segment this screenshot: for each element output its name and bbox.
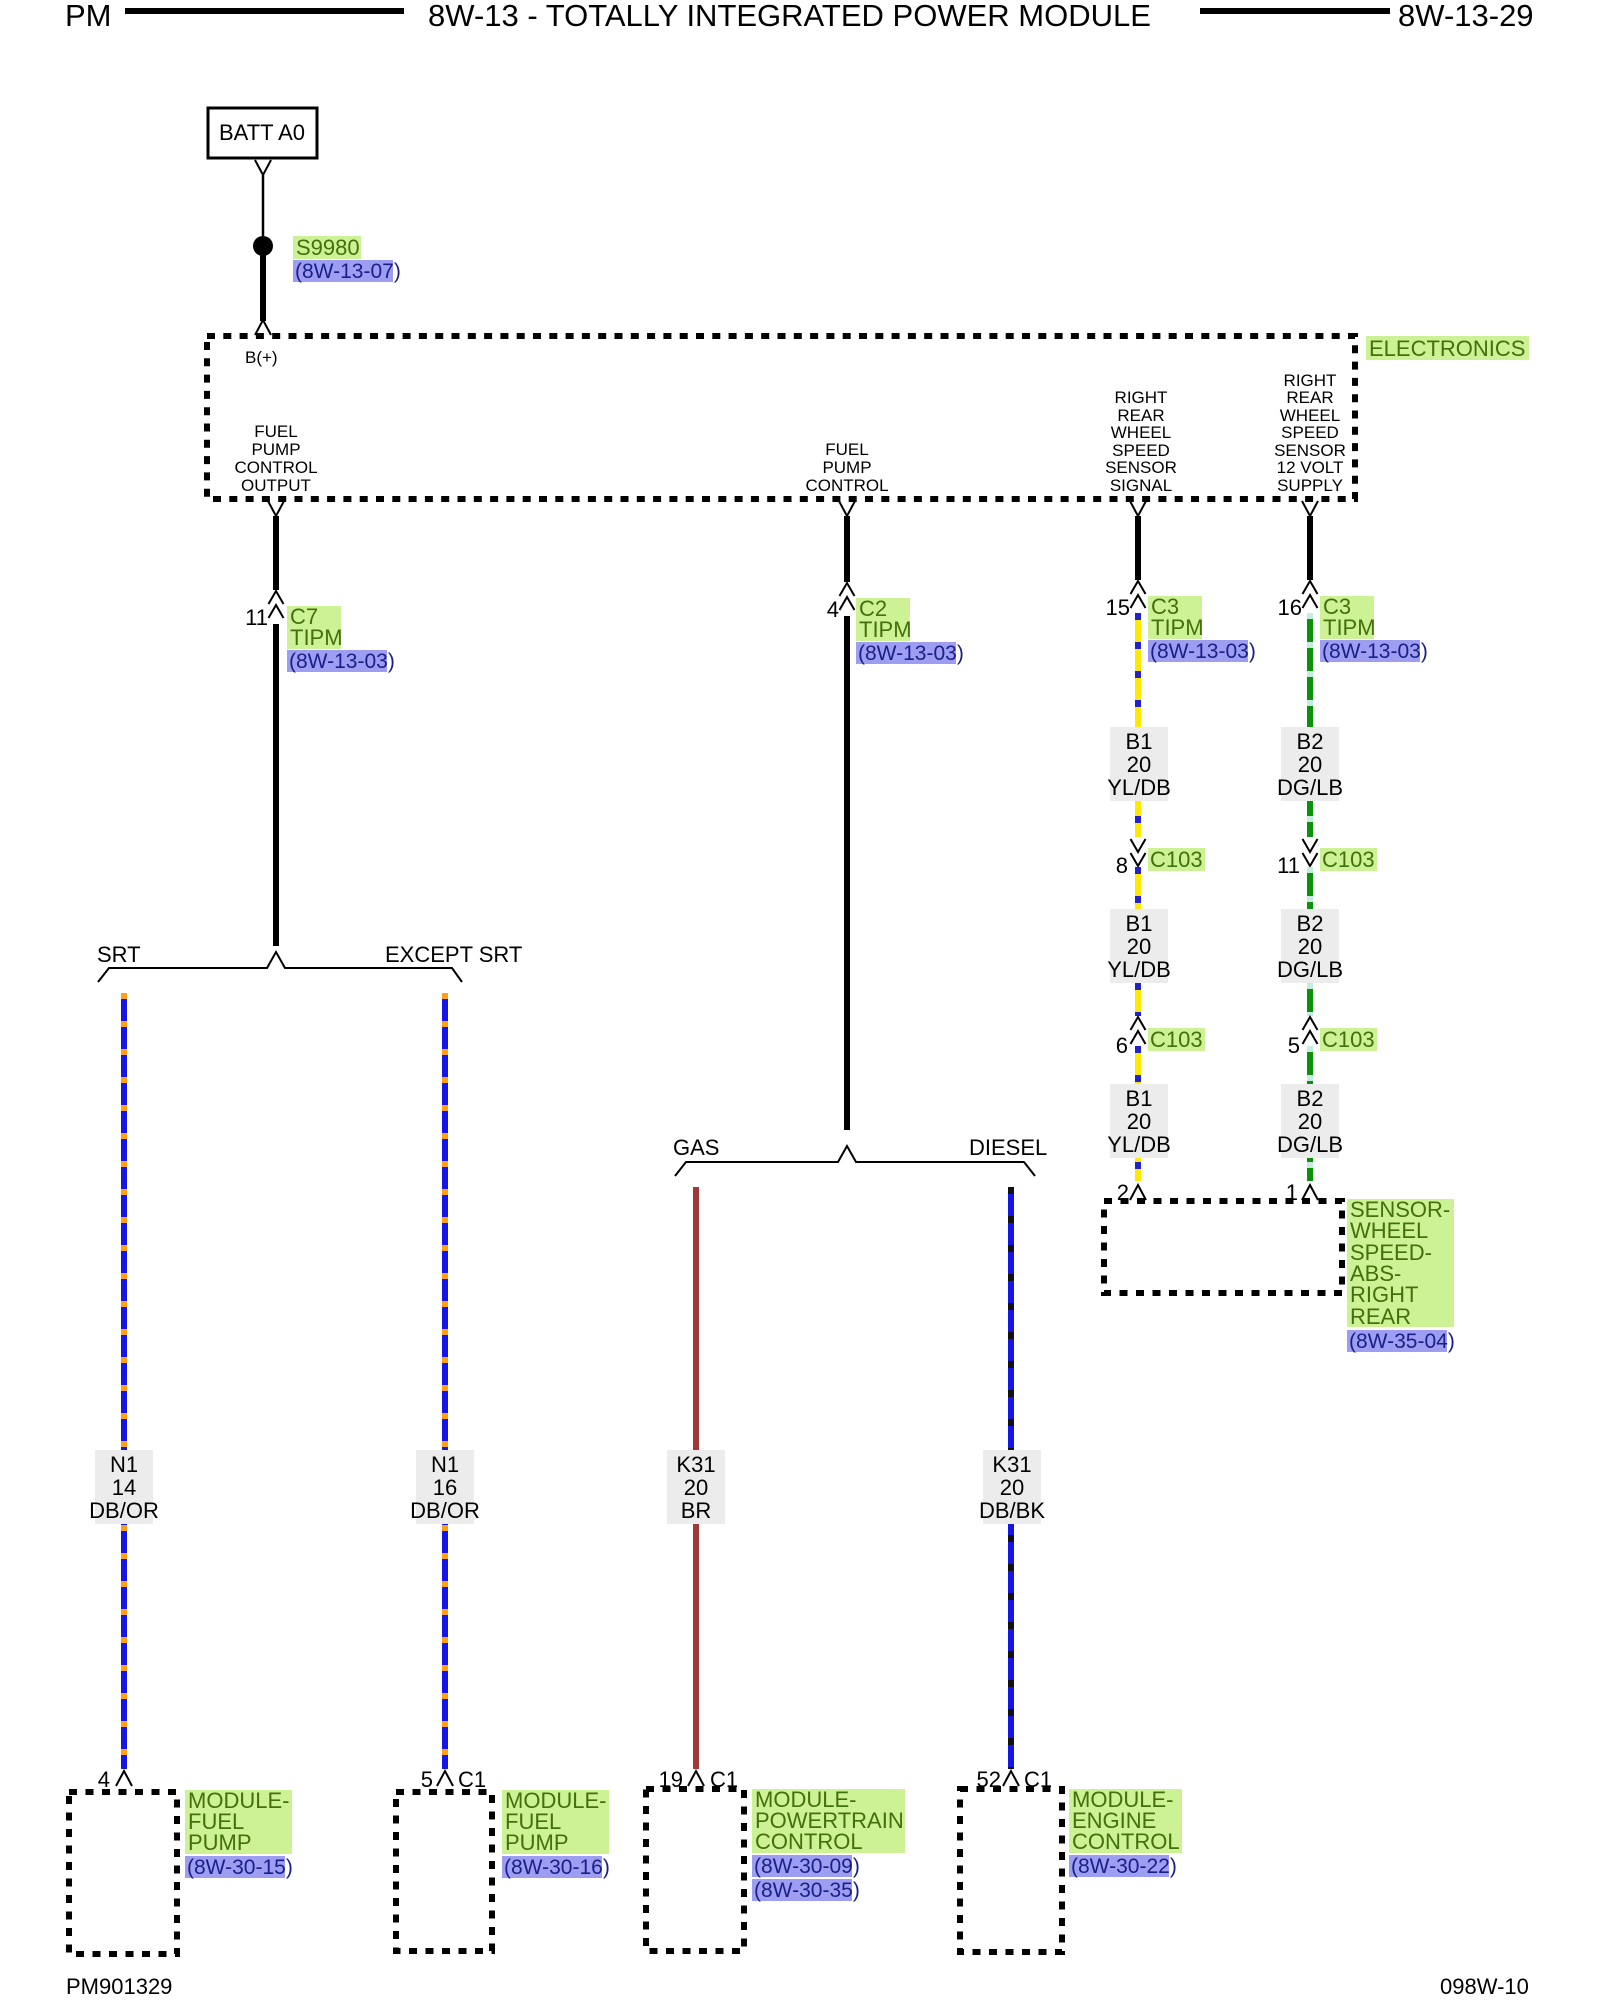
- svg-text:11: 11: [1277, 853, 1300, 878]
- label (8W-30-15): [185, 1856, 285, 1878]
- in-line connector pin 11 of C103: [1303, 839, 1318, 866]
- wire label B2 20 DG/LB: [1281, 727, 1339, 801]
- in-line connector pin 16 of C3 TIPM: [1303, 581, 1318, 608]
- label SENSOR-WHEEL SPEED-ABS-RIGHT REAR: [1347, 1199, 1454, 1327]
- svg-text:TIPM: TIPM: [290, 625, 343, 650]
- module fuel pump (SRT) dashed box: [69, 1792, 177, 1954]
- label (8W-30-22): [1069, 1855, 1169, 1877]
- label (8W-13-07): [293, 260, 393, 282]
- svg-text:(8W-30-09): (8W-30-09): [754, 1855, 860, 1878]
- wire label B1 20 YL/DB: [1110, 909, 1168, 983]
- wire sensor supply inside tipm: [1307, 516, 1313, 580]
- brace SRT / EXCEPT SRT: [98, 952, 462, 982]
- svg-text:(8W-13-03): (8W-13-03): [1150, 640, 1256, 663]
- svg-text:REAR: REAR: [1286, 388, 1333, 407]
- svg-text:C103: C103: [1322, 1027, 1375, 1052]
- svg-text:YL/DB: YL/DB: [1107, 775, 1171, 800]
- svg-text:TIPM: TIPM: [1151, 615, 1204, 640]
- wire sensor signal inside tipm: [1135, 516, 1141, 580]
- svg-text:TIPM: TIPM: [859, 617, 912, 642]
- in-line connector pin 4 of C2 TIPM: [840, 583, 855, 610]
- svg-text:(8W-30-15): (8W-30-15): [187, 1856, 293, 1879]
- wire fuel pump control output lower: [273, 624, 279, 946]
- svg-text:C103: C103: [1322, 847, 1375, 872]
- svg-text:RIGHT: RIGHT: [1115, 388, 1168, 407]
- module fuel pump dashed box: [396, 1792, 492, 1951]
- battery feed box BATT A0: [208, 108, 317, 158]
- label (8W-30-35): [752, 1879, 852, 1901]
- wire B2 20 DG/LB segment 1: [1307, 613, 1313, 837]
- svg-text:K31: K31: [992, 1452, 1031, 1477]
- svg-text:6: 6: [1116, 1033, 1128, 1058]
- in-line connector pin 6 of C103: [1131, 1017, 1146, 1044]
- wire from BATT A0 to splice: [262, 175, 265, 238]
- wire from splice to TIPM B(+): [260, 254, 266, 321]
- svg-text:16: 16: [433, 1475, 457, 1500]
- svg-text:S9980: S9980: [296, 235, 360, 260]
- svg-text:B2: B2: [1297, 1086, 1324, 1111]
- svg-text:DG/LB: DG/LB: [1277, 775, 1343, 800]
- pin label FUEL PUMP CONTROL OUTPUT: [234, 422, 317, 495]
- label C2 TIPM: [856, 598, 910, 641]
- svg-text:OUTPUT: OUTPUT: [241, 476, 311, 495]
- svg-text:20: 20: [1298, 934, 1322, 959]
- in-line connector pin 8 of C103: [1131, 839, 1146, 866]
- label MODULE-ENGINE CONTROL: [1069, 1789, 1182, 1853]
- pin label RIGHT REAR WHEEL SPEED SENSOR 12 VOLT SUPPLY: [1274, 371, 1346, 495]
- in-line connector pin 15 of C3 TIPM: [1131, 581, 1146, 608]
- svg-text:REAR: REAR: [1350, 1304, 1411, 1329]
- label (8W-13-03): [1148, 640, 1248, 662]
- header rule left: [125, 8, 404, 14]
- svg-text:BATT A0: BATT A0: [219, 120, 305, 145]
- wire B1 20 YL/DB segment 2: [1135, 867, 1141, 1016]
- svg-text:(8W-13-03): (8W-13-03): [1322, 640, 1428, 663]
- svg-text:SUPPLY: SUPPLY: [1277, 476, 1343, 495]
- svg-text:PUMP: PUMP: [188, 1830, 252, 1855]
- pin label RIGHT REAR WHEEL SPEED SENSOR SIGNAL: [1105, 388, 1177, 495]
- svg-text:FUEL: FUEL: [825, 440, 868, 459]
- svg-text:PUMP: PUMP: [505, 1830, 569, 1855]
- in-line connector pin 11 of C7 TIPM: [269, 591, 284, 618]
- male pin caret into electronics module: [255, 320, 271, 335]
- wire label B1 20 YL/DB: [1110, 727, 1168, 801]
- label (8W-30-09): [752, 1855, 852, 1877]
- label (8W-13-03): [287, 650, 387, 672]
- label (8W-13-03): [856, 642, 956, 664]
- wire K31 20 DB/BK (DIESEL): [1008, 1187, 1014, 1769]
- svg-text:B1: B1: [1126, 729, 1153, 754]
- wire label K31 20 DB/BK: [983, 1450, 1041, 1524]
- svg-text:(8W-30-22): (8W-30-22): [1071, 1855, 1177, 1878]
- svg-text:20: 20: [1127, 1109, 1151, 1134]
- svg-text:C103: C103: [1150, 847, 1203, 872]
- svg-text:TIPM: TIPM: [1323, 615, 1376, 640]
- electronics module dashed box: [207, 336, 1355, 499]
- pin label FUEL PUMP CONTROL: [805, 440, 888, 495]
- wire K31 20 BR (GAS): [693, 1187, 699, 1769]
- wire label B1 20 YL/DB: [1110, 1084, 1168, 1158]
- wire B1 20 YL/DB segment 1: [1135, 613, 1141, 837]
- module engine control dashed box: [960, 1789, 1062, 1952]
- svg-text:CONTROL: CONTROL: [805, 476, 888, 495]
- svg-text:CONTROL: CONTROL: [755, 1829, 863, 1854]
- svg-text:K31: K31: [676, 1452, 715, 1477]
- label C7 TIPM: [287, 606, 341, 649]
- wire N1 16 DB/OR (EXCEPT SRT): [442, 993, 448, 1769]
- label C3 TIPM: [1148, 596, 1202, 639]
- svg-text:DB/OR: DB/OR: [89, 1498, 159, 1523]
- label C3 TIPM: [1320, 596, 1374, 639]
- svg-text:20: 20: [1298, 1109, 1322, 1134]
- label S9980: [293, 236, 361, 259]
- svg-text:DG/LB: DG/LB: [1277, 1132, 1343, 1157]
- svg-text:YL/DB: YL/DB: [1107, 957, 1171, 982]
- svg-text:SENSOR: SENSOR: [1105, 458, 1177, 477]
- svg-text:5: 5: [421, 1767, 433, 1792]
- wire label B2 20 DG/LB: [1281, 1084, 1339, 1158]
- svg-text:PM901329: PM901329: [66, 1974, 172, 1999]
- label MODULE-POWERTRAIN CONTROL: [752, 1789, 905, 1853]
- svg-text:(8W-30-16): (8W-30-16): [504, 1856, 610, 1879]
- svg-text:DB/BK: DB/BK: [979, 1498, 1045, 1523]
- svg-text:(8W-13-07): (8W-13-07): [295, 260, 401, 283]
- in-line connector pin 5 of C103: [1303, 1017, 1318, 1044]
- sensor wheel speed abs right rear dashed box: [1104, 1201, 1342, 1293]
- svg-text:16: 16: [1278, 595, 1302, 620]
- svg-text:N1: N1: [431, 1452, 459, 1477]
- svg-text:11: 11: [245, 605, 268, 630]
- svg-text:WHEEL: WHEEL: [1111, 423, 1171, 442]
- svg-text:DB/OR: DB/OR: [410, 1498, 480, 1523]
- wire N1 14 DB/OR (SRT): [121, 993, 127, 1769]
- svg-text:PUMP: PUMP: [822, 458, 871, 477]
- svg-text:4: 4: [827, 597, 839, 622]
- svg-text:8: 8: [1116, 853, 1128, 878]
- svg-text:CONTROL: CONTROL: [1072, 1829, 1180, 1854]
- svg-text:B(+): B(+): [245, 348, 278, 367]
- svg-text:C1: C1: [458, 1767, 486, 1792]
- label (8W-13-03): [1320, 640, 1420, 662]
- svg-text:BR: BR: [681, 1498, 712, 1523]
- svg-text:15: 15: [1106, 595, 1130, 620]
- svg-text:FUEL: FUEL: [254, 422, 297, 441]
- wire fuel pump control output upper: [273, 516, 279, 590]
- svg-text:5: 5: [1288, 1033, 1300, 1058]
- svg-text:SRT: SRT: [97, 942, 141, 967]
- svg-text:DG/LB: DG/LB: [1277, 957, 1343, 982]
- svg-text:C103: C103: [1150, 1027, 1203, 1052]
- header rule right: [1200, 8, 1390, 14]
- svg-text:B1: B1: [1126, 911, 1153, 936]
- svg-text:EXCEPT SRT: EXCEPT SRT: [385, 942, 522, 967]
- svg-text:(8W-13-03): (8W-13-03): [289, 650, 395, 673]
- svg-text:8W-13-29: 8W-13-29: [1398, 0, 1534, 33]
- svg-text:ELECTRONICS: ELECTRONICS: [1369, 336, 1525, 361]
- wire label N1 14 DB/OR: [95, 1450, 153, 1524]
- label (8W-30-16): [502, 1856, 602, 1878]
- svg-text:PM: PM: [65, 0, 112, 33]
- svg-text:4: 4: [98, 1767, 110, 1792]
- label MODULE-FUEL PUMP: [185, 1790, 292, 1854]
- svg-text:DIESEL: DIESEL: [969, 1135, 1047, 1160]
- label ELECTRONICS: [1366, 336, 1529, 360]
- svg-text:SIGNAL: SIGNAL: [1110, 476, 1172, 495]
- svg-text:(8W-30-35): (8W-30-35): [754, 1879, 860, 1902]
- wire B1 20 YL/DB segment 3: [1135, 1046, 1141, 1181]
- wire label K31 20 BR: [667, 1450, 725, 1524]
- svg-text:12 VOLT: 12 VOLT: [1277, 458, 1344, 477]
- label (8W-35-04): [1347, 1330, 1447, 1352]
- svg-text:(8W-35-04): (8W-35-04): [1349, 1330, 1455, 1353]
- splice S9980: [253, 236, 273, 256]
- svg-text:CONTROL: CONTROL: [234, 458, 317, 477]
- module powertrain control dashed box: [646, 1789, 744, 1951]
- connector V at right rear wheel speed sensor 12 volt supply: [1302, 501, 1318, 516]
- svg-text:8W-13 - TOTALLY INTEGRATED POW: 8W-13 - TOTALLY INTEGRATED POWER MODULE: [428, 0, 1151, 33]
- svg-text:GAS: GAS: [673, 1135, 719, 1160]
- svg-text:B1: B1: [1126, 1086, 1153, 1111]
- connector at BATT A0 output: [255, 160, 271, 175]
- svg-text:(8W-13-03): (8W-13-03): [858, 642, 964, 665]
- svg-text:20: 20: [1127, 934, 1151, 959]
- svg-text:20: 20: [1298, 752, 1322, 777]
- svg-text:B2: B2: [1297, 911, 1324, 936]
- svg-text:20: 20: [1000, 1475, 1024, 1500]
- wire B2 20 DG/LB segment 2: [1307, 867, 1313, 1016]
- svg-text:SPEED: SPEED: [1281, 423, 1339, 442]
- wire fuel pump control lower: [844, 616, 850, 1130]
- svg-text:YL/DB: YL/DB: [1107, 1132, 1171, 1157]
- svg-text:20: 20: [1127, 752, 1151, 777]
- wire B2 20 DG/LB segment 3: [1307, 1046, 1313, 1181]
- label MODULE-FUEL PUMP: [502, 1790, 609, 1854]
- connector V at right rear wheel speed sensor signal: [1130, 501, 1146, 516]
- wire label N1 16 DB/OR: [416, 1450, 474, 1524]
- svg-text:20: 20: [684, 1475, 708, 1500]
- svg-text:B2: B2: [1297, 729, 1324, 754]
- brace GAS / DIESEL: [675, 1146, 1035, 1176]
- svg-text:14: 14: [112, 1475, 136, 1500]
- wire label B2 20 DG/LB: [1281, 909, 1339, 983]
- svg-text:N1: N1: [110, 1452, 138, 1477]
- svg-text:PUMP: PUMP: [251, 440, 300, 459]
- connector V at fuel pump control: [839, 501, 855, 516]
- svg-text:098W-10: 098W-10: [1440, 1974, 1529, 1999]
- wire fuel pump control upper: [844, 516, 850, 582]
- connector V at fuel pump control output: [268, 501, 284, 516]
